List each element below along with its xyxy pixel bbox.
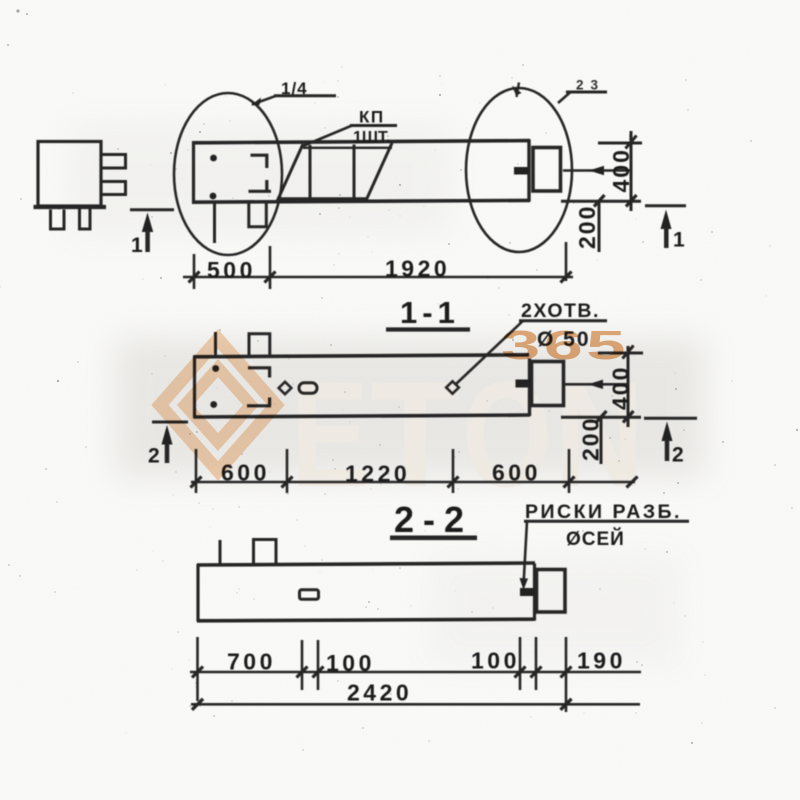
section marker 2 right: arrow: [662, 422, 673, 442]
dim 400 1-1: mid line with arrow: [565, 383, 629, 386]
beam 2-2: top box protrusion: [254, 540, 277, 565]
dim 400 elevation: top reference line: [598, 142, 642, 145]
elevation: embed dot upper: [210, 155, 217, 162]
svg-text:100: 100: [326, 650, 375, 676]
elevation: hanging line below beam: [213, 202, 216, 243]
elevation beam: right edge: [527, 140, 530, 202]
dim 400 1-1: vertical line: [627, 346, 630, 427]
watermark letters layer: [142, 75, 687, 713]
callout 1/4: underline: [274, 94, 336, 97]
section marker 1 left: line: [130, 208, 174, 211]
section title 2-2 underline: [390, 535, 477, 540]
logo outer diamond: [160, 339, 276, 471]
svg-text:190: 190: [577, 648, 626, 674]
beam 1-1: right end tab plate: [532, 362, 564, 406]
svg-text:400: 400: [608, 366, 634, 410]
section marker 2 left: arrow: [162, 425, 173, 445]
beam 2-2: capsule fitting: [300, 590, 319, 600]
dim 400 elevation: mid line with arrow: [563, 169, 632, 172]
detail ellipse right: [466, 88, 572, 252]
dim 200 1-1: vertical line: [600, 416, 603, 464]
elevation beam: left edge: [192, 142, 195, 204]
dim 400 1-1: top reference line: [598, 352, 643, 355]
callout riski: underline: [524, 520, 689, 523]
beam 1-1: capsule fitting: [299, 383, 317, 394]
svg-text:O: O: [462, 352, 552, 519]
callout KP: underline: [350, 124, 397, 127]
svg-text:1220: 1220: [345, 461, 410, 487]
svg-text:КП: КП: [359, 108, 385, 127]
end view: left leg: [51, 210, 65, 230]
elevation: embed bracket bottom corner: [249, 180, 272, 192]
beam 1-1: left edge: [193, 356, 196, 419]
beam 1-1: right edge: [528, 359, 531, 417]
elevation beam: top edge: [192, 141, 530, 143]
dim row elevation: extension line right: [565, 242, 568, 281]
dim row elevation: ticks: [189, 272, 200, 283]
beam 1-1: embed bracket bottom corner: [247, 398, 271, 407]
svg-text:1: 1: [131, 234, 143, 257]
detail ellipse left: [174, 93, 282, 255]
dim 400 1-1: tick top: [623, 346, 634, 359]
break symbol: right diagonal: [366, 143, 392, 201]
elevation: embed dot lower: [210, 193, 217, 200]
callout KP: leader: [303, 126, 352, 147]
section title 1-1 underline: [386, 327, 470, 331]
beam 2-2: left edge: [196, 564, 199, 622]
end view: right leg: [80, 209, 91, 229]
callout 2 holes d50: underline: [519, 319, 607, 322]
svg-text:1-1: 1-1: [400, 295, 460, 330]
svg-text:2ХОТВ.: 2ХОТВ.: [521, 300, 600, 322]
callout 23: underline: [566, 91, 607, 94]
break symbol: left diagonal: [277, 144, 303, 202]
section marker 1 left: arrow: [142, 213, 153, 233]
beam 2-2: top thin protrusion: [219, 540, 222, 564]
svg-text:365: 365: [501, 323, 629, 368]
callout riski: leader: [524, 521, 528, 585]
break symbol: hatch line 1: [309, 145, 312, 201]
end view: base line: [34, 205, 107, 209]
dim row elevation: extension line mid: [269, 246, 272, 289]
svg-text:23: 23: [576, 78, 605, 93]
section marker 2 right: line: [644, 417, 697, 420]
svg-text:1/4: 1/4: [281, 79, 308, 98]
svg-text:1: 1: [673, 229, 685, 252]
elevation beam: bottom edge: [192, 200, 530, 202]
dim row 2-2 first: dimension line: [190, 671, 641, 674]
beam 1-1: embed dot lower: [210, 401, 217, 408]
break symbol: bottom thick edge: [277, 197, 367, 200]
svg-text:T: T: [370, 352, 460, 519]
svg-text:2420: 2420: [347, 680, 412, 706]
section marker 1 right: line: [645, 204, 686, 207]
svg-text:РИСКИ РАЗБ.: РИСКИ РАЗБ.: [525, 501, 682, 523]
end view: upper right tab: [101, 155, 126, 169]
dim row 2-2 first: extension lines: [196, 637, 199, 701]
svg-text:100: 100: [471, 648, 520, 674]
dim 200 elevation: bottom reference line: [561, 200, 641, 203]
svg-text:1920: 1920: [385, 256, 450, 282]
svg-text:2: 2: [672, 444, 684, 467]
dim 400 elevation: vertical line: [630, 131, 633, 211]
callout riski: arrow tip: [520, 578, 529, 590]
svg-text:ØСЕЙ: ØСЕЙ: [566, 528, 625, 550]
grey scan washes: [70, 125, 705, 665]
axis tick on right ellipse top: [512, 86, 522, 96]
dim 200 1-1: bottom reference line: [561, 416, 641, 419]
end view: lower right tab: [101, 182, 126, 195]
beam 1-1: embed dot upper: [212, 365, 219, 372]
svg-text:E: E: [291, 350, 369, 518]
elevation: riska stub bar: [514, 167, 529, 175]
beam 1-1: hole diamond with leader: [446, 381, 459, 393]
callout 1/4: leader: [252, 96, 276, 105]
dim 200 elevation: ticks: [594, 195, 605, 207]
svg-text:500: 500: [207, 257, 256, 283]
end view: column square body: [38, 142, 101, 207]
elevation: small box below beam: [249, 203, 266, 227]
beam 2-2: bottom edge: [197, 619, 535, 621]
svg-text:1ШТ.: 1ШТ.: [353, 129, 390, 146]
break symbol: top inner edge: [303, 147, 392, 149]
elevation: right end tab plate: [533, 148, 561, 192]
svg-text:2: 2: [148, 445, 160, 468]
beam 2-2: top edge: [197, 563, 535, 565]
section marker 2 left: line: [152, 421, 188, 424]
dim row elevation: extension line left: [193, 254, 196, 289]
callout 1/4: arrow tip: [251, 98, 261, 106]
dim row elevation: dimension line: [183, 276, 573, 279]
callout 23: leader: [558, 93, 570, 104]
dim 200 1-1: ticks: [596, 411, 607, 423]
svg-text:700: 700: [227, 649, 276, 675]
beam 2-2: right edge: [533, 564, 536, 621]
beam 1-1: top thin protrusion: [214, 332, 217, 356]
svg-text:2-2: 2-2: [394, 499, 473, 540]
beam 1-1: top box protrusion: [249, 334, 270, 357]
dim 200 elevation: vertical line: [598, 200, 601, 252]
dim row 2-2 total: ticks: [192, 699, 203, 710]
dim 400 elevation: tick top: [626, 136, 637, 149]
svg-text:200: 200: [578, 417, 604, 461]
beam 1-1: top edge: [194, 355, 530, 357]
svg-text:600: 600: [492, 460, 541, 486]
beam 1-1: small diamond fitting: [279, 382, 292, 394]
break symbol: hatch line 2: [353, 145, 356, 201]
dim row 2-2 first: ticks: [192, 667, 203, 678]
beam 2-2: riska stub bar: [520, 588, 534, 596]
dim row 1-1: extension lines: [195, 449, 198, 493]
section marker 1 right: arrow: [661, 210, 672, 230]
svg-text:400: 400: [608, 148, 634, 192]
dim row 1-1: ticks: [191, 477, 202, 488]
beam 1-1: riska stub bar: [516, 380, 531, 388]
beam 1-1: embed bracket top corner: [248, 368, 270, 378]
callout 2 holes d50: leader: [456, 321, 523, 384]
svg-text:200: 200: [574, 205, 600, 249]
logo inner diamond: [185, 368, 251, 442]
dim row 1-1: dimension line: [191, 481, 635, 484]
elevation: embed bracket top corner: [251, 155, 267, 168]
beam 2-2: right end tab plate: [537, 570, 566, 613]
dim row 2-2 total: dimension line: [191, 703, 640, 706]
beam 1-1: bottom edge: [194, 415, 531, 417]
